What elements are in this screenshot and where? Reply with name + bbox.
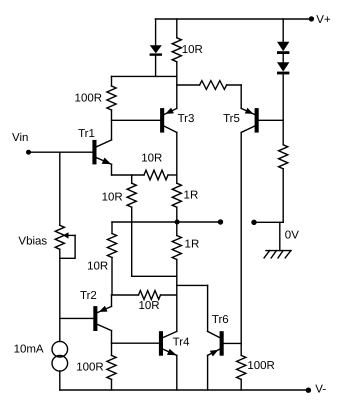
- svg-text:Tr4: Tr4: [173, 337, 190, 349]
- svg-text:10R: 10R: [102, 191, 123, 203]
- svg-text:Tr1: Tr1: [78, 128, 95, 140]
- svg-text:1R: 1R: [184, 189, 199, 201]
- svg-text:10mA: 10mA: [14, 344, 44, 356]
- svg-text:Vbias: Vbias: [18, 236, 47, 248]
- svg-text:V-: V-: [315, 384, 326, 396]
- svg-text:100R: 100R: [75, 92, 103, 104]
- svg-text:10R: 10R: [141, 153, 162, 165]
- svg-text:10R: 10R: [87, 261, 108, 273]
- svg-text:Tr2: Tr2: [80, 290, 97, 302]
- svg-text:Tr3: Tr3: [178, 113, 195, 125]
- svg-text:100R: 100R: [247, 360, 275, 372]
- svg-text:0V: 0V: [285, 230, 299, 242]
- svg-text:100R: 100R: [76, 362, 104, 374]
- svg-text:10R: 10R: [138, 300, 159, 312]
- svg-text:Tr6: Tr6: [212, 314, 229, 326]
- svg-text:Tr5: Tr5: [223, 113, 240, 125]
- svg-text:Vin: Vin: [12, 132, 28, 144]
- svg-text:1R: 1R: [185, 238, 200, 250]
- svg-text:10R: 10R: [182, 44, 203, 56]
- svg-text:V+: V+: [316, 14, 331, 26]
